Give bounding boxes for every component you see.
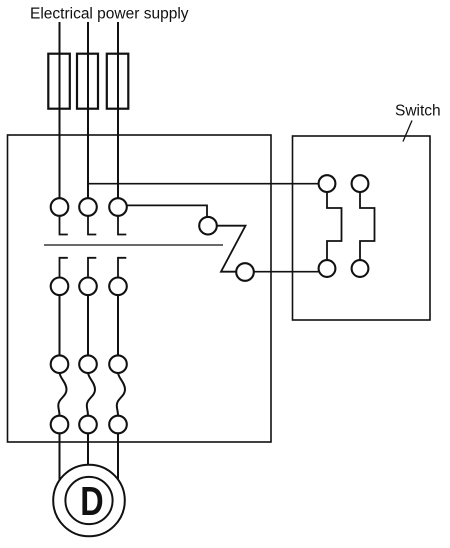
main enclosure box [8,135,272,442]
contactor lower contact circle 2 [79,278,97,296]
wire to overload phase 1 [59,295,61,355]
contactor linkage bar [44,244,223,246]
contactor lower contact circle 3 [109,278,127,296]
motor lead 1 [59,433,61,481]
overload heater element 2 (S-curve) [87,373,95,416]
switch terminal circle top-left [319,175,336,192]
motor lead 3 [117,433,119,481]
overload relay lower terminal 1 [51,416,69,434]
auxiliary contact lower circle [236,263,254,281]
fuse F1 [48,54,70,109]
fuse F3 [107,54,129,109]
contactor main contact K3 (upper right circle) [109,198,127,216]
contactor lower contact circle 1 [51,278,69,296]
motor M inner circle [65,477,112,524]
switch terminal circle top-right [352,175,369,192]
fuse F2 [77,54,98,109]
label pointer line [403,121,412,142]
svg-text:D: D [80,479,103,524]
wire to overload phase 3 [117,295,119,355]
wire aux contact to switch (lower) [254,271,319,273]
wire tap to switch (upper) [88,183,319,185]
movable contact stub above lower K3 [118,258,126,278]
overload relay upper terminal 3 [109,355,127,373]
wire L3 (right supply line) [117,22,119,199]
movable contact stub below K1 [60,216,68,235]
overload heater element 1 (S-curve) [58,373,66,416]
movable contact stub above lower K2 [88,258,96,278]
overload relay upper terminal 1 [51,355,69,373]
switch terminal circle bottom-right [352,260,369,277]
switch pole 1 zigzag [327,192,342,260]
contactor main contact K2 (upper middle circle) [79,198,97,216]
overload relay lower terminal 3 [109,416,127,434]
switch terminal circle bottom-left [319,260,336,277]
movable contact stub below K3 [118,216,126,235]
wire from K3 to auxiliary contact [127,205,207,217]
movable contact stub below K2 [88,216,96,235]
wire L2 (middle supply line) [87,22,89,199]
wire to overload phase 2 [87,295,89,355]
motor M outer circle [53,465,125,537]
overload relay lower terminal 2 [79,416,97,434]
switch enclosure box [293,136,431,320]
auxiliary contact arm (diagonal blade) [217,226,246,272]
contactor main contact K1 (upper left circle) [51,198,69,216]
movable contact stub above lower K1 [60,258,68,278]
switch pole 2 zigzag [360,192,375,260]
auxiliary contact upper circle [199,217,217,235]
overload relay upper terminal 2 [79,355,97,373]
wire L1 (left supply line) [59,22,61,199]
overload heater element 3 (S-curve) [117,373,125,416]
svg-text:Switch: Switch [395,103,441,120]
svg-text:Electrical power supply: Electrical power supply [30,6,189,23]
motor lead 2 [87,433,89,468]
